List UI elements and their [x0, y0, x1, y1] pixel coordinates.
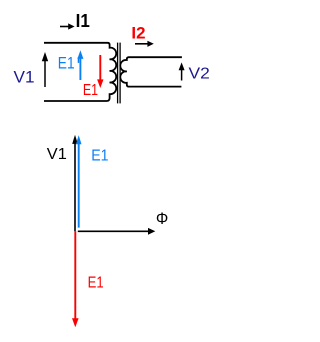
voltage arrow V1 — [42, 52, 48, 87]
svg-text:E1: E1 — [88, 274, 104, 291]
svg-text:V2: V2 — [189, 66, 210, 83]
secondary winding loop with coil L2 — [120, 57, 182, 86]
svg-text:E1: E1 — [91, 147, 108, 164]
svg-text:E1: E1 — [58, 54, 75, 72]
current arrow I2 — [135, 41, 154, 47]
current arrow I1 — [60, 23, 75, 29]
primary winding loop with coil L1 — [44, 43, 116, 101]
svg-text:E1: E1 — [83, 82, 98, 99]
label E1 prime tick — [77, 57, 79, 63]
voltage arrow V2 — [179, 62, 185, 80]
transformer core — [118, 43, 121, 104]
phasor V1 (black, up) — [72, 135, 78, 232]
flux axis arrow (phi) — [78, 228, 156, 235]
svg-text:Φ: Φ — [156, 210, 168, 228]
phasor E1 (red, down) — [72, 231, 79, 327]
svg-text:I2: I2 — [131, 25, 145, 43]
emf arrow E1 (blue, induced) — [77, 50, 83, 80]
svg-text:V1: V1 — [14, 68, 35, 86]
svg-text:V1: V1 — [47, 146, 67, 163]
phasor E1 (blue, up) — [76, 135, 82, 227]
emf arrow E1 (red, counter) — [97, 55, 103, 88]
svg-text:I1: I1 — [76, 11, 90, 31]
